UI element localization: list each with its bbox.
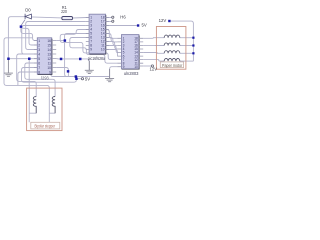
svg-text:7: 7 <box>38 66 40 70</box>
svg-text:12V: 12V <box>159 18 167 23</box>
pad 5v top <box>137 24 139 26</box>
wire coil2 right to bus <box>180 45 194 47</box>
node gnd row left <box>7 58 10 61</box>
svg-text:220: 220 <box>61 9 67 14</box>
wire L293 pin7 hook to 5V node <box>22 68 77 83</box>
svg-text:pic16f628a: pic16f628a <box>88 56 106 61</box>
wire 5V node drop and stub <box>76 77 81 79</box>
wire PIC pin17 to terminal <box>106 21 112 23</box>
ground 3 <box>105 69 114 82</box>
resistor R1 <box>62 17 73 20</box>
wire PIC pin6 zigzag ladder to ULN pin8 <box>70 38 117 64</box>
wire PIC pin12 to ULN pin4 <box>106 42 118 50</box>
bipolar name frame <box>31 122 60 129</box>
wire PIC pin2 loop to L293 pin2 <box>26 22 86 50</box>
wire PIC pin3 loop to L293 pin3 <box>22 26 86 55</box>
svg-text:10: 10 <box>101 48 105 52</box>
terminal H6 b <box>112 20 114 22</box>
paper motor name frame <box>160 62 183 68</box>
wire PIC pin11 to ULN pin5 <box>106 46 118 53</box>
junction node dots <box>7 20 194 80</box>
node bus coil2 <box>192 44 194 46</box>
svg-text:4: 4 <box>38 52 40 56</box>
wire diode to resistor to PIC pin1 <box>31 17 89 18</box>
wire PIC pin15 to ULN pin1 <box>106 30 118 39</box>
l293 pin numbers <box>38 39 51 75</box>
wire ULN out4 to coil4 <box>143 60 164 62</box>
wire PIC pin10 to ULN pin6 <box>106 50 119 57</box>
node 5v bottom <box>75 78 78 81</box>
ground 1 <box>4 59 13 77</box>
node below l293 row <box>75 75 78 78</box>
svg-text:Bipolar stepper: Bipolar stepper <box>35 124 56 129</box>
wire PIC pin5 down through L293 pin1R node to 5V row <box>65 34 90 77</box>
coil paper 2 <box>164 43 180 46</box>
svg-text:2: 2 <box>38 43 40 47</box>
svg-text:15: 15 <box>47 43 51 47</box>
node diode junction <box>20 25 23 28</box>
svg-text:8: 8 <box>38 70 40 74</box>
wire 12V top to right bus <box>171 21 194 61</box>
bipolar stepper box <box>27 88 62 131</box>
wire L293 pin8 hook to row 85 <box>18 72 37 85</box>
svg-text:9: 9 <box>90 48 92 52</box>
pic pin numbers <box>90 16 105 52</box>
svg-text:11: 11 <box>48 61 52 65</box>
l293 pins left <box>34 41 56 73</box>
svg-text:D0: D0 <box>25 7 31 12</box>
wire PIC pin4 zigzag ladder to ULN pin7 <box>60 30 117 60</box>
wire ULN out1 to coil1 <box>143 37 164 40</box>
coil bipolar left <box>33 97 36 114</box>
svg-text:9: 9 <box>123 65 125 69</box>
wire left line into L293 pin1 <box>4 38 33 83</box>
terminal circles <box>81 16 153 80</box>
svg-text:5V: 5V <box>85 77 90 82</box>
IC U3 uln2803 body <box>122 35 140 70</box>
wire coil1 right to bus <box>180 37 194 39</box>
coil bipolar right <box>52 97 55 114</box>
svg-text:12: 12 <box>47 57 51 61</box>
coil paper 3 <box>164 51 180 54</box>
terminal 5V bottom <box>81 78 83 80</box>
svg-text:3: 3 <box>38 48 40 52</box>
svg-text:16: 16 <box>47 39 51 43</box>
wire L293 right gnd row to gnd2 <box>56 59 89 71</box>
wire ULN out3 to coil3 <box>143 52 164 55</box>
terminal H6 a <box>112 16 114 18</box>
wire ULN pin9R to 12V terminal <box>143 65 151 67</box>
wire node down then to PIC pin5 <box>21 28 37 41</box>
wire left vertical to diode row <box>8 17 25 59</box>
node pin7R corner <box>67 70 70 73</box>
wire PIC pin14 to ULN pin2 <box>106 34 118 42</box>
IC U2 pic16f628a body <box>89 14 106 54</box>
wire PIC pin13 to ULN pin3 <box>106 38 118 46</box>
uln pin numbers <box>123 37 138 69</box>
ground 2 <box>85 61 94 74</box>
pad 12v top <box>168 20 170 22</box>
wire uln pin9 to gnd3 <box>110 67 118 79</box>
svg-text:1: 1 <box>38 39 40 43</box>
svg-text:12V: 12V <box>150 67 158 72</box>
coil paper 4 <box>164 58 180 61</box>
node gnd row mid <box>28 58 31 61</box>
node l293 right gnd row a <box>60 58 63 61</box>
svg-text:10: 10 <box>134 65 138 69</box>
diode D0 <box>21 14 31 26</box>
wire L293 pin7R hook <box>56 68 68 77</box>
wire coil4 right to bus <box>180 60 194 62</box>
svg-text:10: 10 <box>47 66 51 70</box>
uln pins left <box>117 38 143 66</box>
IC U1 l293 body <box>37 38 52 75</box>
svg-text:Paper motor: Paper motor <box>162 63 183 68</box>
svg-text:5V: 5V <box>142 23 147 28</box>
wire L293 pin6 hook to bipolar coil2 top <box>25 63 55 97</box>
wire coil3 right to bus <box>180 52 194 54</box>
svg-text:13: 13 <box>47 52 51 56</box>
svg-text:l293: l293 <box>41 76 49 81</box>
wire L293 pin1R stub to node <box>56 40 64 42</box>
wire below L293 row to gnd3 stem <box>51 74 110 76</box>
wire ULN out2 to coil2 <box>143 44 164 46</box>
svg-text:6: 6 <box>38 61 40 65</box>
wire gnd row into L293 pin5 <box>8 58 37 60</box>
node l293 pin1 stub <box>64 39 67 42</box>
svg-text:5: 5 <box>38 57 40 61</box>
node bus coil3 <box>192 52 194 54</box>
svg-text:uln2803: uln2803 <box>124 71 139 76</box>
labels <box>25 5 166 82</box>
coil paper 1 <box>164 35 180 38</box>
wire PIC pin16 to 5V pad <box>106 25 137 27</box>
svg-text:14: 14 <box>47 48 51 52</box>
wire PIC pin18 to terminal <box>106 17 112 19</box>
wire left row y85 to bipolar coil2 bottom leg <box>4 83 55 122</box>
svg-text:9: 9 <box>49 70 51 74</box>
node l293 right gnd row b <box>79 58 82 61</box>
wire node to PIC pin4 <box>22 28 37 45</box>
svg-text:H6: H6 <box>120 15 126 20</box>
wire junction col down to bipolar coil1 bottom leg <box>29 59 36 123</box>
paper motor box <box>156 27 186 70</box>
wire L293 pin4 hook down to bipolar coil1 top <box>17 54 38 97</box>
pic pins left <box>86 18 109 50</box>
terminal 12V mid <box>151 65 153 67</box>
node bus coil1 <box>192 37 194 39</box>
